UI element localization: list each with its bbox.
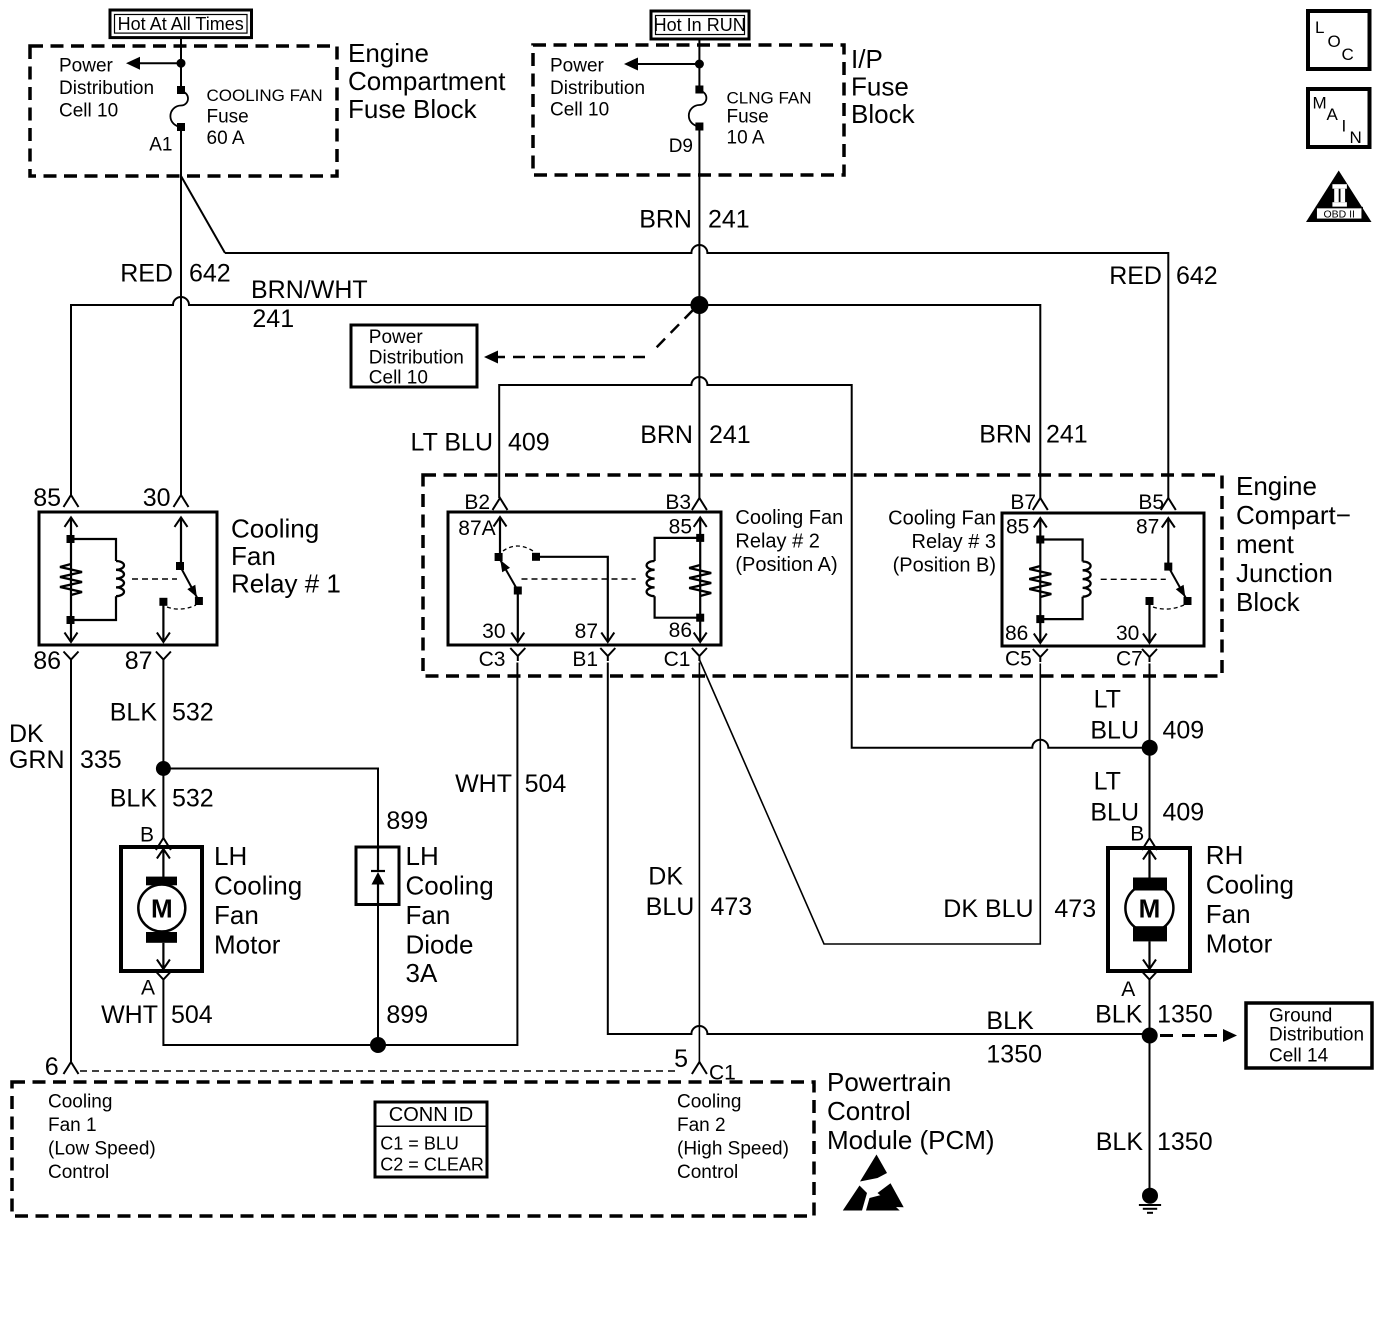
- svg-text:Relay # 2: Relay # 2: [735, 531, 820, 553]
- svg-text:Cooling Fan: Cooling Fan: [735, 507, 843, 529]
- svg-text:Compart−: Compart−: [1236, 500, 1351, 530]
- svg-text:LT: LT: [1094, 768, 1121, 796]
- svg-text:BLU: BLU: [1090, 717, 1139, 745]
- svg-text:3A: 3A: [406, 958, 438, 988]
- svg-text:87A: 87A: [458, 517, 495, 540]
- svg-text:DK: DK: [648, 863, 683, 891]
- svg-text:LT: LT: [1094, 686, 1121, 714]
- svg-text:30: 30: [482, 620, 505, 643]
- svg-text:CLNG FAN: CLNG FAN: [727, 89, 812, 108]
- svg-text:30: 30: [143, 484, 171, 512]
- svg-text:Power: Power: [550, 56, 605, 77]
- svg-text:87: 87: [575, 620, 598, 643]
- svg-text:1350: 1350: [1157, 1001, 1213, 1029]
- svg-text:(Position B): (Position B): [893, 555, 996, 577]
- svg-text:BRN: BRN: [639, 206, 692, 234]
- svg-text:1350: 1350: [986, 1041, 1042, 1069]
- svg-text:Cooling Fan: Cooling Fan: [888, 508, 996, 530]
- svg-text:B: B: [1130, 823, 1144, 846]
- svg-text:85: 85: [1006, 516, 1029, 539]
- svg-text:Cooling: Cooling: [48, 1092, 112, 1113]
- svg-text:COOLING FAN: COOLING FAN: [207, 86, 323, 105]
- svg-text:Motor: Motor: [1206, 929, 1273, 959]
- svg-text:409: 409: [1163, 717, 1205, 745]
- svg-text:C7: C7: [1116, 648, 1143, 671]
- svg-text:409: 409: [1163, 799, 1205, 827]
- svg-text:Engine: Engine: [1236, 471, 1317, 501]
- svg-text:899: 899: [386, 1001, 428, 1029]
- svg-text:BLU: BLU: [646, 893, 695, 921]
- svg-text:Engine: Engine: [348, 38, 429, 68]
- svg-text:Module (PCM): Module (PCM): [827, 1125, 995, 1155]
- svg-text:86: 86: [669, 619, 692, 642]
- svg-text:86: 86: [33, 647, 61, 675]
- svg-text:B1: B1: [572, 648, 598, 671]
- svg-text:Diode: Diode: [406, 930, 474, 960]
- svg-text:Fan 2: Fan 2: [677, 1115, 726, 1136]
- svg-text:Hot At All Times: Hot At All Times: [118, 14, 244, 34]
- svg-text:ment: ment: [1236, 529, 1295, 559]
- svg-text:RED: RED: [1109, 262, 1162, 290]
- svg-text:M: M: [1313, 94, 1327, 113]
- svg-text:335: 335: [80, 746, 122, 774]
- svg-text:86: 86: [1005, 622, 1028, 645]
- svg-text:85: 85: [669, 516, 692, 539]
- svg-text:Fuse: Fuse: [727, 107, 769, 128]
- svg-text:Cell 10: Cell 10: [59, 101, 118, 122]
- svg-text:Cell 14: Cell 14: [1269, 1046, 1329, 1067]
- svg-text:O: O: [1328, 32, 1341, 51]
- svg-text:473: 473: [1054, 895, 1096, 923]
- svg-text:BRN/WHT: BRN/WHT: [251, 276, 368, 304]
- svg-text:Control: Control: [827, 1096, 911, 1126]
- svg-text:241: 241: [708, 206, 750, 234]
- svg-text:6: 6: [45, 1053, 59, 1081]
- svg-text:Control: Control: [677, 1162, 738, 1183]
- svg-text:Compartment: Compartment: [348, 66, 506, 96]
- svg-text:I/P: I/P: [851, 44, 883, 74]
- svg-text:504: 504: [171, 1001, 213, 1029]
- svg-text:Cooling: Cooling: [231, 514, 319, 544]
- svg-text:A: A: [1121, 978, 1135, 1001]
- svg-text:B3: B3: [665, 491, 691, 514]
- svg-text:Fan: Fan: [214, 900, 259, 930]
- svg-text:(Position A): (Position A): [735, 554, 837, 576]
- svg-text:Block: Block: [851, 99, 916, 129]
- svg-text:504: 504: [525, 770, 567, 798]
- svg-text:Junction: Junction: [1236, 558, 1333, 588]
- svg-text:Motor: Motor: [214, 930, 281, 960]
- svg-text:899: 899: [386, 807, 428, 835]
- svg-text:87: 87: [1136, 516, 1159, 539]
- svg-text:Power: Power: [59, 56, 114, 77]
- svg-text:Distribution: Distribution: [1269, 1025, 1364, 1046]
- svg-text:BRN: BRN: [979, 421, 1032, 449]
- svg-text:L: L: [1315, 18, 1324, 37]
- svg-text:Relay # 1: Relay # 1: [231, 569, 341, 599]
- svg-text:1350: 1350: [1157, 1128, 1213, 1156]
- svg-text:Fan: Fan: [1206, 899, 1251, 929]
- svg-text:M: M: [1139, 894, 1161, 924]
- svg-text:B7: B7: [1010, 491, 1036, 514]
- svg-text:Cooling: Cooling: [214, 871, 302, 901]
- svg-text:10 A: 10 A: [727, 128, 765, 149]
- svg-text:642: 642: [1176, 262, 1218, 290]
- svg-text:Control: Control: [48, 1162, 109, 1183]
- svg-text:Relay # 3: Relay # 3: [912, 531, 997, 553]
- svg-text:A: A: [1327, 105, 1339, 124]
- svg-text:CONN ID: CONN ID: [389, 1104, 473, 1126]
- svg-text:Cell 10: Cell 10: [369, 368, 428, 389]
- svg-text:BLK: BLK: [986, 1007, 1034, 1035]
- svg-text:C1 = BLU: C1 = BLU: [380, 1134, 459, 1154]
- svg-text:60 A: 60 A: [207, 128, 245, 149]
- svg-text:642: 642: [189, 260, 231, 288]
- svg-text:Fan: Fan: [406, 900, 451, 930]
- svg-text:532: 532: [172, 785, 214, 813]
- svg-text:Fuse: Fuse: [207, 107, 249, 128]
- svg-text:5: 5: [674, 1045, 688, 1073]
- svg-text:I: I: [1342, 117, 1347, 136]
- svg-text:Fan: Fan: [231, 541, 276, 571]
- svg-text:30: 30: [1116, 622, 1139, 645]
- svg-text:Fan 1: Fan 1: [48, 1115, 97, 1136]
- svg-text:Cooling: Cooling: [406, 871, 494, 901]
- svg-text:Power: Power: [369, 327, 424, 348]
- svg-text:RED: RED: [120, 260, 173, 288]
- svg-text:DK BLU: DK BLU: [943, 895, 1033, 923]
- svg-text:LH: LH: [406, 841, 439, 871]
- svg-text:B5: B5: [1138, 491, 1164, 514]
- svg-text:C5: C5: [1005, 648, 1032, 671]
- svg-text:Fuse Block: Fuse Block: [348, 94, 478, 124]
- svg-text:A: A: [141, 977, 155, 1000]
- svg-text:BRN: BRN: [640, 421, 693, 449]
- svg-text:M: M: [151, 894, 173, 924]
- svg-text:BLK: BLK: [110, 785, 158, 813]
- svg-text:C: C: [1342, 45, 1354, 64]
- svg-text:Distribution: Distribution: [369, 348, 464, 369]
- svg-text:Fuse: Fuse: [851, 72, 909, 102]
- svg-text:OBD II: OBD II: [1323, 208, 1355, 220]
- svg-text:Cooling: Cooling: [1206, 870, 1294, 900]
- svg-text:Cell 10: Cell 10: [550, 100, 609, 121]
- svg-text:Powertrain: Powertrain: [827, 1067, 951, 1097]
- svg-text:532: 532: [172, 699, 214, 727]
- svg-text:241: 241: [709, 421, 751, 449]
- svg-text:LT BLU: LT BLU: [411, 429, 493, 457]
- svg-text:473: 473: [711, 893, 753, 921]
- svg-text:GRN: GRN: [9, 746, 65, 774]
- svg-text:Distribution: Distribution: [59, 78, 154, 99]
- svg-text:RH: RH: [1206, 840, 1244, 870]
- svg-text:A1: A1: [149, 135, 172, 156]
- svg-text:Distribution: Distribution: [550, 78, 645, 99]
- svg-text:N: N: [1350, 128, 1362, 147]
- svg-text:(High Speed): (High Speed): [677, 1139, 789, 1160]
- svg-text:BLK: BLK: [1095, 1001, 1143, 1029]
- svg-text:WHT: WHT: [455, 770, 512, 798]
- svg-text:87: 87: [125, 647, 153, 675]
- svg-text:C2 = CLEAR: C2 = CLEAR: [380, 1155, 484, 1175]
- svg-text:WHT: WHT: [101, 1001, 158, 1029]
- svg-text:C3: C3: [479, 648, 506, 671]
- svg-text:Ground: Ground: [1269, 1006, 1332, 1027]
- svg-text:BLK: BLK: [1096, 1128, 1144, 1156]
- svg-text:241: 241: [252, 305, 294, 333]
- svg-text:DK: DK: [9, 720, 44, 748]
- svg-text:Block: Block: [1236, 587, 1301, 617]
- svg-text:LH: LH: [214, 841, 247, 871]
- svg-text:(Low Speed): (Low Speed): [48, 1139, 156, 1160]
- svg-text:Cooling: Cooling: [677, 1092, 741, 1113]
- svg-text:B: B: [140, 824, 154, 847]
- svg-text:Hot In RUN: Hot In RUN: [654, 15, 746, 35]
- svg-text:241: 241: [1046, 421, 1088, 449]
- svg-text:409: 409: [508, 429, 550, 457]
- svg-text:C1: C1: [664, 648, 691, 671]
- svg-text:85: 85: [33, 484, 61, 512]
- svg-text:BLK: BLK: [110, 699, 158, 727]
- svg-text:D9: D9: [669, 136, 693, 157]
- svg-text:B2: B2: [464, 491, 490, 514]
